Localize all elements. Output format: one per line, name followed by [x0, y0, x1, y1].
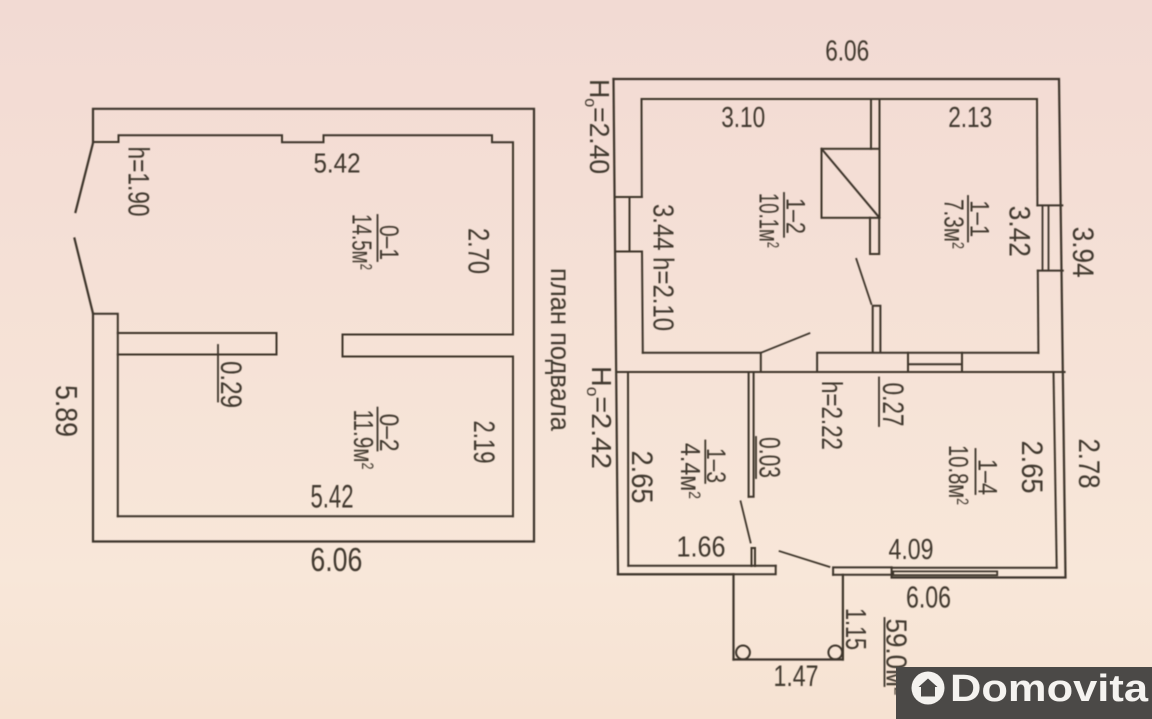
- svg-text:Ho=2.40: Ho=2.40: [581, 79, 615, 174]
- basement left bulge wall lower diagonal: [75, 239, 94, 314]
- house outer left wall: [614, 79, 734, 574]
- basement left bulge wall upper diagonal: [76, 143, 94, 212]
- window W1 mid line: [629, 197, 631, 252]
- watermark logo circle: [912, 672, 945, 705]
- basement mid step left: [93, 314, 118, 517]
- interior wall 1-2|1-1 left line: [870, 99, 872, 149]
- room 1-3 outer bottom wall with cap: [618, 566, 776, 575]
- room 1-3 inner left wall: [627, 372, 629, 566]
- svg-text:1–4: 1–4: [973, 459, 1003, 495]
- house inner left wall upper: [641, 99, 643, 197]
- svg-text:Ho=2.42: Ho=2.42: [583, 366, 617, 469]
- window W1 left wall cap bottom: [616, 251, 642, 253]
- watermark band: [896, 667, 1152, 719]
- basement inner top wall: [93, 135, 513, 334]
- house inner left wall lower: [641, 252, 644, 353]
- svg-text:план подвала: план подвала: [545, 268, 576, 431]
- door 1-1|1-4 panel: [908, 363, 962, 365]
- svg-text:2.78: 2.78: [1072, 439, 1105, 489]
- door leaf 1-2 to 1-1: [856, 259, 871, 304]
- fraction rule 0-1: [377, 215, 379, 261]
- house 1-4 inner bottom wall: [892, 567, 1057, 569]
- svg-text:Domovita: Domovita: [950, 668, 1149, 710]
- door stub 1-3 bottom: [752, 548, 756, 566]
- fraction rule 1-2: [783, 193, 785, 237]
- entry wall segment bottom line: [833, 574, 892, 576]
- svg-text:10.1м2: 10.1м2: [754, 193, 785, 248]
- stairs diagonal: [822, 149, 880, 218]
- svg-text:2.70: 2.70: [462, 228, 495, 274]
- middle wall top line left segment: [643, 353, 761, 372]
- entry wall segment top line: [833, 567, 892, 574]
- fraction rule 1-3: [704, 441, 706, 483]
- svg-text:0–1: 0–1: [374, 225, 404, 260]
- house inner right wall lower: [1037, 271, 1040, 353]
- porch left post line: [732, 574, 734, 659]
- svg-text:1.15: 1.15: [839, 608, 871, 650]
- partition 1-3 right line a: [748, 372, 750, 497]
- svg-text:2.19: 2.19: [467, 421, 500, 464]
- house outer wall: [614, 79, 1066, 578]
- partition 1-3 right line b: [749, 372, 754, 497]
- svg-text:3.10: 3.10: [721, 102, 765, 134]
- dimension tick 0.27: [878, 378, 880, 427]
- svg-text:10.8м2: 10.8м2: [943, 445, 974, 505]
- svg-text:h=2.22: h=2.22: [815, 381, 847, 450]
- stairs box: [822, 149, 880, 218]
- dimension tick 59.0 underline: [884, 618, 886, 686]
- interior wall stub below stairs: [870, 218, 879, 254]
- svg-text:2.65: 2.65: [625, 451, 658, 504]
- room 1-3 inner bottom wall: [628, 565, 775, 567]
- basement 0.29 dimension tick: [217, 345, 219, 402]
- svg-text:11.9м2: 11.9м2: [348, 410, 379, 470]
- window W3 bottom line a: [893, 571, 997, 575]
- door leaf 1-2 doorway: [761, 333, 810, 353]
- svg-text:6.06: 6.06: [906, 580, 951, 615]
- window W1 left wall cap top: [616, 196, 642, 198]
- svg-text:3.42: 3.42: [1003, 206, 1036, 257]
- svg-text:5.42: 5.42: [314, 148, 361, 179]
- house 1-4 inner right wall: [1054, 372, 1057, 568]
- svg-text:0.03: 0.03: [753, 437, 786, 478]
- svg-text:14.5м2: 14.5м2: [347, 214, 378, 270]
- basement middle wall right segment: [343, 335, 514, 357]
- svg-text:2.65: 2.65: [1015, 441, 1048, 494]
- watermark house icon: [919, 679, 938, 697]
- svg-text:0.29: 0.29: [214, 361, 247, 408]
- fraction rule 1-4: [975, 449, 977, 494]
- porch column right: [828, 646, 842, 660]
- basement inner right wall lower: [512, 357, 514, 517]
- basement outer wall top: [93, 109, 534, 542]
- window W2 glass line a: [1042, 205, 1044, 270]
- house inner right wall upper: [1036, 99, 1038, 205]
- svg-text:1.47: 1.47: [774, 660, 819, 693]
- porch column left: [736, 646, 750, 660]
- entry wall divider: [891, 567, 893, 577]
- svg-text:6.06: 6.06: [825, 36, 869, 68]
- interior wall 1-2|1-1 right line: [879, 99, 881, 149]
- svg-text:7.3м2: 7.3м2: [939, 199, 970, 249]
- porch right post line: [842, 575, 844, 660]
- fraction rule 1-1: [967, 196, 969, 242]
- middle wall bottom line: [618, 371, 1065, 373]
- svg-text:5.89: 5.89: [49, 385, 84, 437]
- door 1-1|1-4 jamb right: [961, 353, 963, 372]
- svg-text:h=1.90: h=1.90: [122, 147, 155, 217]
- interior wall stub above middle wall: [873, 306, 881, 353]
- door 1-1|1-4 jamb left: [907, 353, 909, 372]
- svg-text:3.44 h=2.10: 3.44 h=2.10: [647, 204, 679, 331]
- svg-text:2.13: 2.13: [948, 102, 992, 134]
- basement middle wall left segment: [118, 333, 277, 355]
- entry door leaf: [780, 551, 830, 567]
- window W2 right wall cap top: [1037, 204, 1062, 206]
- dimension tick 0.03: [755, 437, 757, 478]
- middle wall top line right segment: [817, 353, 1038, 372]
- svg-text:4.09: 4.09: [889, 534, 934, 566]
- svg-text:6.06: 6.06: [310, 541, 362, 578]
- basement inner bottom wall: [118, 515, 513, 517]
- porch bottom line: [734, 658, 843, 660]
- door leaf 1-3: [741, 501, 751, 542]
- window W2 glass line b: [1048, 205, 1050, 270]
- svg-text:5.42: 5.42: [311, 479, 354, 515]
- svg-text:3.94: 3.94: [1066, 227, 1099, 278]
- svg-text:4.4м2: 4.4м2: [675, 443, 706, 499]
- window W2 right wall cap bottom: [1038, 270, 1063, 272]
- svg-text:0.27: 0.27: [876, 383, 909, 427]
- svg-text:1.66: 1.66: [677, 532, 726, 564]
- house inner top wall: [642, 98, 1038, 100]
- fraction rule 0-2: [377, 408, 379, 451]
